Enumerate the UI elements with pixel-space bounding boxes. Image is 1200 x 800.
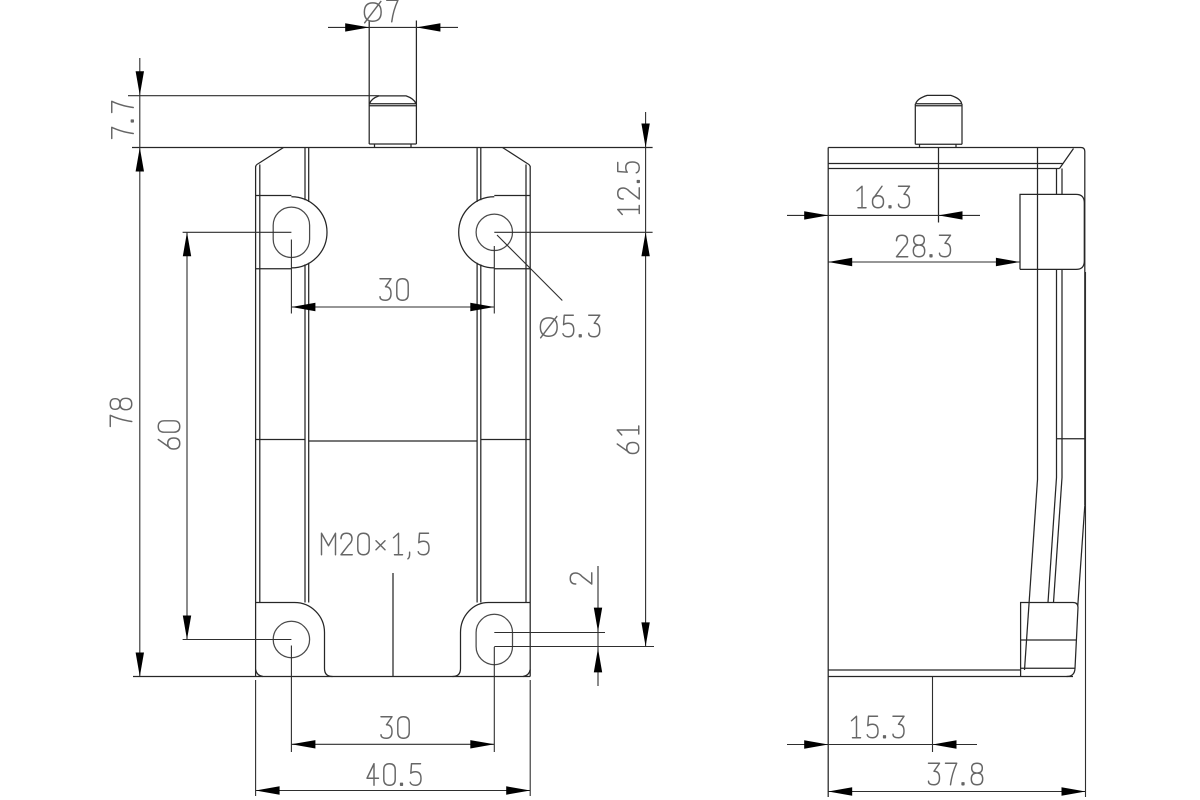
front view plunger: bottom line: [369, 143, 416, 145]
front view plunger: dome top: [370, 96, 416, 104]
front view: mid horizontal line right segment: [481, 439, 530, 441]
front view: top-left ear outline: [256, 196, 327, 269]
dimension 60: extension line to top-left hole centre: [183, 231, 292, 233]
front view: bottom-right ear outline: [453, 603, 531, 677]
dimension 60: extension line to bottom-left hole centre: [183, 639, 292, 641]
front view: inner vertical line 2 (upper+lower): [308, 148, 310, 202]
front view: bottom-right slot hole: [476, 614, 512, 664]
front view: bottom-left round hole: [273, 621, 309, 657]
side view: bottom-right block: [1021, 603, 1078, 677]
front view: right outer edge: [529, 167, 531, 677]
side view: long diagonal cover edge: [1025, 480, 1038, 671]
dimension 7.7 / 78: vertical dimension line: [139, 58, 141, 677]
side view: mid tick line: [1057, 438, 1085, 440]
dimension 16.3: line with outside arrows: [787, 214, 980, 216]
side view plunger: centreline: [938, 148, 940, 223]
side view plunger: sides: [914, 104, 916, 145]
front view: bottom-left ear outline: [256, 603, 333, 677]
side view: bottom edge: [828, 676, 1073, 678]
dimension 37.8: dimension line with inside arrows: [828, 791, 1085, 793]
dimension diameter 5.3: leader line: [497, 235, 562, 301]
side view: flange top line left part: [828, 669, 1020, 671]
dimension 78: label: [110, 398, 132, 426]
dimension 60: vertical dimension line: [186, 232, 188, 639]
dimension 30 top: dimension line with inside arrows: [291, 306, 494, 308]
dimension 30 top: extension lines from hole centres: [290, 240, 292, 314]
side view: top inner line 2: [828, 168, 1059, 170]
side view: cover rear pair above tab: [1056, 169, 1058, 195]
front view: inner vertical line 3 (upper+lower): [476, 148, 478, 202]
dimension diameter 5.3: label: [540, 315, 599, 338]
side view plunger: dome base lines: [915, 103, 962, 105]
side view: right edge lower slanted part: [1078, 506, 1085, 606]
dimension 15.3: extension line: [932, 677, 934, 752]
front view: top-right chamfer: [503, 148, 531, 168]
dimension diameter 7: label: [364, 0, 398, 23]
dimension 16.3: label: [857, 186, 910, 208]
dimension 2: extension lines from slot arc centres: [494, 632, 605, 634]
side view: top edge: [828, 148, 1085, 152]
side view plunger: dome: [916, 95, 962, 103]
front view: bottom edge / 78 extension line: [133, 676, 530, 678]
dimension 30 bottom: label: [381, 717, 409, 739]
front view: left inner wall line: [259, 165, 261, 603]
dimension 7.7: extension line at plunger dome top: [128, 95, 379, 97]
dimension 2: vertical dimension line with outside arrows: [597, 566, 599, 686]
dimension diameter 7: line with outside arrows: [328, 26, 458, 28]
dimension 15.3: line with outside arrows: [787, 744, 977, 746]
front view: M20x1,5 thread label: [322, 533, 430, 559]
front view: top-left slot hole: [273, 207, 309, 257]
front view: inner vertical line 4 (upper+lower): [480, 148, 482, 201]
dimension 30 bottom: dimension line with inside arrows: [291, 743, 494, 745]
dimension 28.3: dimension line with inside arrows: [828, 261, 1020, 263]
side view: inner vertical line: [1037, 148, 1039, 480]
side view plunger: bottom line: [915, 143, 962, 145]
front view: top-right ear outline: [459, 196, 531, 269]
side view: cover rear pair slanted lower part: [1048, 478, 1057, 603]
front view: inner vertical line 1 (upper+lower): [304, 148, 306, 201]
dimension 61: label: [617, 426, 639, 454]
dimension 30 top: label: [380, 279, 408, 301]
side view: top inner line 1: [828, 163, 1062, 165]
front view: left outer edge: [255, 167, 257, 677]
dimension 12.5: label: [618, 162, 640, 215]
dimension 28.3: label: [897, 235, 951, 257]
dimension 40.5: dimension line with inside arrows: [256, 790, 531, 792]
side view: block inner line: [1021, 639, 1077, 641]
front view: bottom-left wall fillet: [256, 670, 263, 677]
front view plunger: neck: [374, 144, 376, 148]
side view: right edge upper straight part: [1084, 152, 1086, 506]
dimension 37.8: label: [929, 763, 983, 785]
dimension 37.8: extension line at widest point: [1085, 272, 1087, 797]
side view plunger: neck: [919, 144, 921, 147]
dimension 40.5: label: [367, 764, 421, 786]
dimension 12.5 / 61: vertical dimension line: [645, 112, 647, 646]
front view: top edge / 7.7 extension line: [132, 147, 653, 149]
side view: cover rear pair below tab: [1056, 269, 1058, 477]
side view: top-right chamfer diagonal: [1060, 149, 1074, 169]
dimension 30 bottom: extension lines from bottom hole centres: [290, 646, 292, 753]
side view: conduit tab top right: [1020, 194, 1084, 269]
front view: mid horizontal line centre segment: [309, 440, 477, 442]
dimension 40.5: extension lines from body edges: [255, 680, 257, 796]
side view: flange top line right part: [1021, 667, 1075, 669]
dimension 15.3: label: [852, 716, 905, 738]
front view plunger: dome base lines: [369, 103, 416, 105]
side view: left edge / extension line for 15.3 and 37.8: [827, 148, 829, 798]
front view plunger: left side / extension line: [368, 21, 370, 145]
dimension 7.7: label: [112, 101, 134, 138]
dimension 12.5: extension line at top hole centre: [494, 231, 652, 233]
front view: top-right round hole: [476, 214, 512, 250]
dimension 60: label: [158, 421, 180, 449]
front view: bottom-right wall fillet: [523, 670, 530, 677]
front view: top-left chamfer: [256, 148, 284, 168]
front view: right inner wall line: [525, 165, 527, 603]
front view: M20x1,5 leader line: [392, 573, 394, 677]
front view: mid horizontal line left segment: [256, 439, 305, 441]
front view plunger: right side / extension line: [415, 21, 417, 145]
dimension 2: label: [570, 573, 592, 584]
